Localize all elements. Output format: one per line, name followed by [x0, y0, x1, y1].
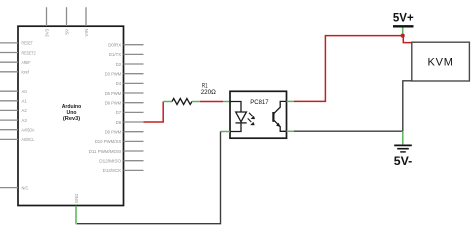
pin 5V (top): [65, 7, 71, 34]
pin RESET2: [0, 50, 36, 56]
pin D3 PWM: [105, 72, 144, 78]
wire opto emitter endpoint (green): [287, 130, 295, 132]
svg-text:D13/SCK: D13/SCK: [103, 168, 122, 174]
LED inside PC817: [230, 102, 247, 132]
pin D0/RX: [108, 43, 143, 49]
pin D10 PWM/SS: [95, 139, 144, 145]
junction dot at 5V+: [401, 34, 405, 38]
svg-text:D10 PWM/SS: D10 PWM/SS: [95, 139, 122, 145]
pin A3: [0, 118, 27, 124]
svg-text:3V3: 3V3: [45, 29, 51, 37]
pin A2: [0, 108, 27, 114]
pin D1/TX: [109, 52, 144, 58]
wire opto collector endpoint (green): [287, 100, 295, 102]
svg-text:RESET2: RESET2: [22, 50, 36, 56]
KVM label: [427, 57, 453, 69]
pin D4: [116, 81, 144, 87]
svg-text:D6 PWM: D6 PWM: [105, 101, 122, 107]
svg-text:D8: D8: [116, 120, 122, 126]
pin 3V3 (top): [45, 7, 51, 37]
wire collector to 5V+ junction (red): [294, 36, 403, 102]
svg-text:D9 PWM: D9 PWM: [105, 130, 122, 136]
arduino U1 label text: [62, 104, 82, 122]
svg-text:VIN: VIN: [84, 28, 90, 36]
pin D2: [116, 62, 144, 68]
svg-text:AREF: AREF: [22, 60, 31, 66]
KVM box: [412, 42, 470, 81]
ground symbol 5V-: [394, 145, 412, 152]
svg-text:A5/SCL: A5/SCL: [22, 137, 35, 143]
arduino U1 body (Arduino Uno Rev3): [18, 26, 124, 205]
wire cathode to GND (dark): [77, 132, 221, 224]
pin D12/MISO: [99, 159, 143, 165]
resistor R1 value label 220 ohm: [201, 89, 216, 96]
svg-text:D3 PWM: D3 PWM: [105, 72, 122, 78]
pin D13/SCK: [103, 168, 144, 174]
svg-text:ioref: ioref: [22, 70, 30, 76]
svg-text:A2: A2: [22, 108, 27, 114]
pin D11 PWM/MOSI: [89, 149, 144, 155]
pin A1: [0, 99, 27, 105]
pin D5 PWM: [105, 91, 144, 97]
pin A0: [0, 89, 27, 95]
svg-text:KVM: KVM: [427, 57, 453, 69]
5V+ supply symbol stub (green): [402, 27, 404, 34]
wire emitter to ground node (dark): [294, 130, 403, 132]
svg-text:D4: D4: [116, 81, 122, 87]
svg-text:D5 PWM: D5 PWM: [105, 91, 122, 97]
pin VIN (top): [84, 7, 90, 36]
svg-text:220Ω: 220Ω: [201, 89, 216, 96]
svg-text:5V-: 5V-: [394, 154, 412, 168]
svg-text:GND: GND: [74, 193, 80, 203]
svg-text:D11 PWM/MOSI: D11 PWM/MOSI: [89, 149, 122, 155]
pin D8: [116, 120, 144, 126]
pin A4/SDA: [0, 128, 35, 134]
wire ground stub (green): [402, 131, 404, 144]
phototransistor inside PC817: [273, 101, 286, 131]
svg-text:N/C: N/C: [22, 185, 29, 191]
pin AREF: [0, 60, 31, 66]
svg-text:A3: A3: [22, 118, 27, 124]
svg-text:D2: D2: [116, 62, 122, 68]
svg-text:(Rev3): (Rev3): [63, 116, 81, 122]
resistor R1: [172, 99, 192, 105]
pin D7: [116, 110, 144, 116]
5V- label: [394, 154, 412, 168]
svg-text:D7: D7: [116, 110, 122, 116]
svg-text:5V: 5V: [65, 28, 71, 35]
wire opto cathode endpoint (green): [221, 131, 231, 133]
svg-text:A0: A0: [22, 89, 27, 95]
wire red-to-resistor endpoint (green): [163, 101, 172, 103]
svg-text:PC817: PC817: [250, 99, 268, 106]
svg-text:D0/RX: D0/RX: [108, 43, 122, 49]
wire R1 to opto anode (red): [200, 101, 223, 103]
wire junction to KVM (red): [403, 36, 412, 43]
svg-text:RESET: RESET: [22, 41, 33, 47]
wire resistor right lead (green): [192, 101, 200, 103]
5V+ supply symbol bar: [393, 25, 414, 27]
pin GND (bottom): [74, 193, 80, 203]
pin D6 PWM: [105, 101, 144, 107]
LED light emission arrows: [248, 113, 255, 125]
svg-text:A1: A1: [22, 99, 27, 105]
pin N/C: [0, 185, 29, 191]
wire KVM to ground (dark): [403, 81, 412, 131]
wire opto anode endpoint (green): [223, 101, 230, 103]
svg-text:D1/TX: D1/TX: [109, 52, 122, 58]
svg-text:5V+: 5V+: [393, 11, 414, 25]
pin ioref: [0, 70, 29, 76]
5V+ label: [393, 11, 414, 25]
wire GND pin stub (green): [75, 206, 77, 225]
resistor R1 designator label: [202, 83, 208, 90]
optocoupler U2 label PC817: [250, 99, 268, 106]
wire D8 to R1 (red): [144, 102, 164, 123]
pin A5/SCL: [0, 137, 34, 143]
svg-text:D12/MISO: D12/MISO: [99, 159, 121, 165]
pin RESET: [0, 41, 33, 47]
pin D9 PWM: [105, 130, 144, 136]
svg-text:A4/SDA: A4/SDA: [22, 128, 36, 134]
optocoupler U2 PC817 body: [230, 91, 287, 138]
